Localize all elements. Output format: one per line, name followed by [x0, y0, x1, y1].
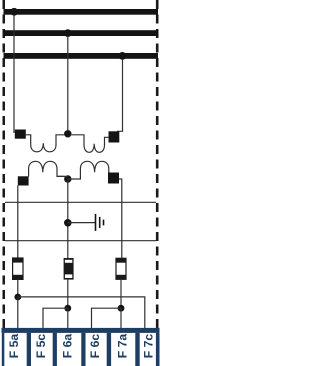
- ground symbol: [95, 214, 105, 231]
- inductor L1 (row1 left, bumps down): [26, 135, 65, 152]
- wire to ground: [68, 222, 96, 224]
- wire terminal4 to right rail: [119, 179, 122, 258]
- wire fuse S1 to node L: [17, 279, 19, 297]
- junction dot on bus bar 2: [64, 29, 72, 37]
- terminal strip top band: [2, 328, 160, 333]
- terminal 1 (row1 left square): [15, 130, 26, 139]
- wire node L to F5a: [17, 297, 19, 330]
- separator line 1: [5, 201, 156, 203]
- inductor L2 (row1 right, bumps down): [71, 135, 109, 153]
- divider F6a/F6c: [81, 333, 85, 366]
- divider F5a/F5c: [27, 333, 31, 366]
- junction dot on bus bar 1: [10, 8, 18, 16]
- terminal 3 (row1 right square): [109, 131, 120, 142]
- wire node L to F7c: [18, 297, 145, 330]
- wire node R to F6c: [92, 308, 122, 330]
- wire bar3 to terminal 3: [117, 59, 123, 131]
- node B (row2 center junction): [64, 175, 71, 182]
- divider F6c/F7a: [107, 333, 111, 366]
- right dashed border: [156, 0, 159, 328]
- bus bar 3: [4, 53, 159, 59]
- wire node B left stub: [57, 175, 68, 177]
- svg-text:F 5a: F 5a: [7, 334, 21, 359]
- wire bar1 to terminal 1: [13, 15, 15, 134]
- fuse S2 (middle, inverse style): [64, 258, 74, 280]
- terminal 2 (row2 left square): [18, 176, 29, 185]
- divider F5c/F6a: [53, 333, 57, 366]
- divider F7a/F7c: [135, 333, 139, 366]
- node L junction dot: [14, 294, 21, 301]
- svg-text:F 6c: F 6c: [88, 334, 102, 359]
- svg-text:F 5c: F 5c: [34, 334, 48, 359]
- wire node R to F7a: [120, 308, 122, 330]
- fuse S1 (left): [13, 258, 23, 279]
- svg-text:F 6a: F 6a: [60, 334, 74, 359]
- wire fuse S3 to node R: [120, 279, 122, 308]
- node M junction dot: [64, 305, 71, 312]
- svg-text:F 7a: F 7a: [115, 334, 129, 359]
- inductor L4 (row2 right, bumps up): [68, 161, 109, 179]
- junction dot on bus bar 3: [119, 52, 127, 60]
- ground junction dot: [64, 219, 72, 227]
- wire fuse S2 to node M: [67, 280, 69, 309]
- wire node M to F5c: [43, 308, 68, 330]
- inductor L3 (row2 left, bumps up): [29, 161, 65, 176]
- terminal 4 (row2 right square): [108, 173, 119, 184]
- node R junction dot: [118, 305, 125, 312]
- wire node M to F6a: [67, 308, 69, 330]
- terminal strip right bar: [156, 333, 160, 366]
- fuse S3 (right): [116, 258, 126, 279]
- terminal strip left bar: [2, 333, 5, 366]
- node A (row1 center junction): [64, 130, 71, 137]
- left dashed border: [3, 0, 6, 328]
- bus bar 2: [4, 30, 159, 36]
- separator line 2: [5, 240, 156, 242]
- wire middle rail (node B to fuse S2): [67, 179, 69, 258]
- wire left rail (terminal2 to fuse S1): [17, 186, 19, 259]
- svg-text:F 7c: F 7c: [141, 334, 155, 359]
- wire bar2 to node A: [67, 36, 69, 134]
- bus bar 1: [4, 9, 159, 15]
